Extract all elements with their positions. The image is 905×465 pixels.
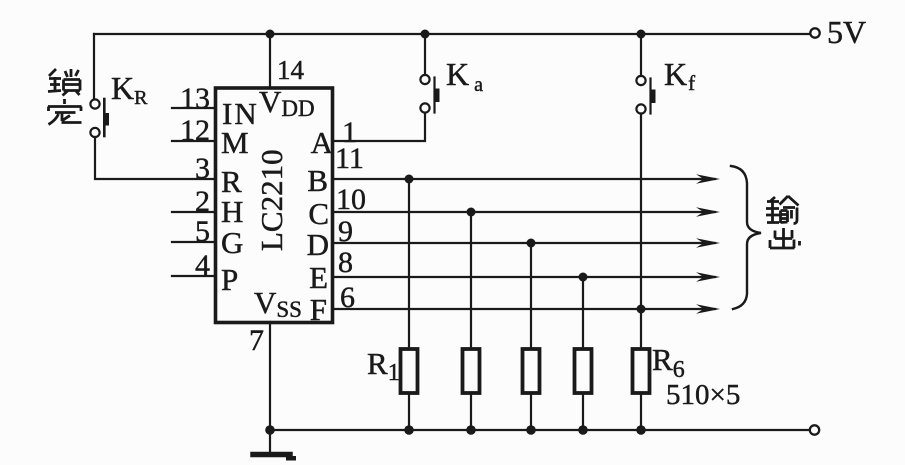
svg-text:13: 13	[180, 82, 210, 115]
svg-text:LC2210: LC2210	[254, 149, 289, 251]
wire output F	[334, 308, 715, 310]
resistor R6	[633, 349, 650, 393]
label shuchu (output)	[766, 196, 800, 248]
svg-text:B: B	[307, 163, 328, 198]
wire R4 lead	[582, 277, 584, 349]
wire pin2 stub	[172, 211, 214, 213]
node R4 ground	[578, 425, 588, 435]
5V terminal	[810, 28, 819, 37]
wire R3 lead	[530, 243, 532, 349]
svg-text:7: 7	[249, 324, 264, 357]
wire VSS pin7	[269, 322, 271, 430]
node R2 ground	[466, 425, 476, 435]
IC U1 LC2210 body	[216, 88, 333, 323]
wire ground rail	[270, 429, 810, 431]
arrowhead F	[696, 304, 720, 314]
wire pin4 stub	[172, 275, 214, 277]
node R1 ground	[404, 425, 414, 435]
label suoding (lock)	[48, 69, 82, 125]
svg-text:M: M	[221, 125, 249, 160]
svg-text:D: D	[307, 227, 329, 262]
pushbutton KR	[90, 99, 109, 137]
svg-text:H: H	[221, 194, 243, 229]
node D junction	[527, 239, 536, 248]
resistor R4	[575, 349, 592, 393]
ground	[253, 430, 296, 461]
svg-text:5: 5	[195, 215, 210, 248]
svg-text:P: P	[221, 262, 238, 297]
node F junction	[637, 305, 646, 314]
wire R2 lead	[470, 212, 472, 349]
node R3 ground	[526, 425, 536, 435]
svg-text:12: 12	[180, 114, 210, 147]
svg-text:3: 3	[195, 152, 210, 185]
svg-text:6: 6	[340, 281, 355, 314]
svg-text:A: A	[311, 125, 334, 160]
arrowhead D	[696, 238, 720, 248]
svg-text:4: 4	[195, 249, 210, 282]
svg-text:510×5: 510×5	[666, 379, 740, 411]
brace output	[731, 166, 761, 309]
node Kf rail junction	[637, 30, 646, 39]
wire Ka to rail	[424, 34, 426, 75]
svg-text:G: G	[221, 225, 243, 260]
arrowhead E	[696, 272, 720, 282]
pushbutton Ka	[420, 75, 439, 113]
node VDD rail junction	[266, 30, 275, 39]
wire pin12 stub	[172, 140, 214, 142]
wire VDD pin14	[269, 34, 271, 88]
svg-text:2: 2	[195, 185, 210, 218]
wire pin5 stub	[172, 241, 214, 243]
node C junction	[467, 208, 476, 217]
svg-text:14: 14	[277, 55, 305, 85]
node pin7 ground junction	[265, 425, 275, 435]
wire KR to pin3	[95, 137, 214, 179]
svg-text:8: 8	[338, 246, 353, 279]
wire pin13 stub	[172, 107, 214, 109]
resistor R3	[523, 349, 540, 393]
wire pin A to Ka	[334, 113, 425, 141]
resistor R2	[463, 349, 480, 393]
wire output B	[334, 178, 715, 180]
svg-text:E: E	[309, 260, 328, 295]
svg-text:F: F	[310, 292, 327, 327]
arrowhead C	[696, 207, 720, 217]
svg-text:5V: 5V	[827, 14, 866, 50]
node E junction	[579, 273, 588, 282]
pushbutton Kf	[636, 76, 655, 114]
wire output C	[334, 211, 715, 213]
wire Kf to rail	[640, 34, 642, 76]
node B junction	[405, 175, 414, 184]
wire top 5V rail	[94, 33, 810, 35]
arrowhead B	[696, 174, 720, 184]
wire Kf down to R6	[640, 114, 642, 350]
svg-text:10: 10	[336, 183, 366, 216]
wire left drop to KR	[93, 34, 95, 99]
terminal ground rail end	[810, 425, 819, 434]
node Ka rail junction	[421, 30, 430, 39]
svg-text:C: C	[308, 196, 329, 231]
wire output E	[334, 276, 715, 278]
svg-text:9: 9	[338, 215, 353, 248]
svg-text:11: 11	[335, 142, 364, 175]
wire R1 lead	[408, 179, 410, 349]
node R6 ground	[636, 425, 646, 435]
wire output D	[334, 242, 715, 244]
resistor R1	[401, 349, 418, 393]
